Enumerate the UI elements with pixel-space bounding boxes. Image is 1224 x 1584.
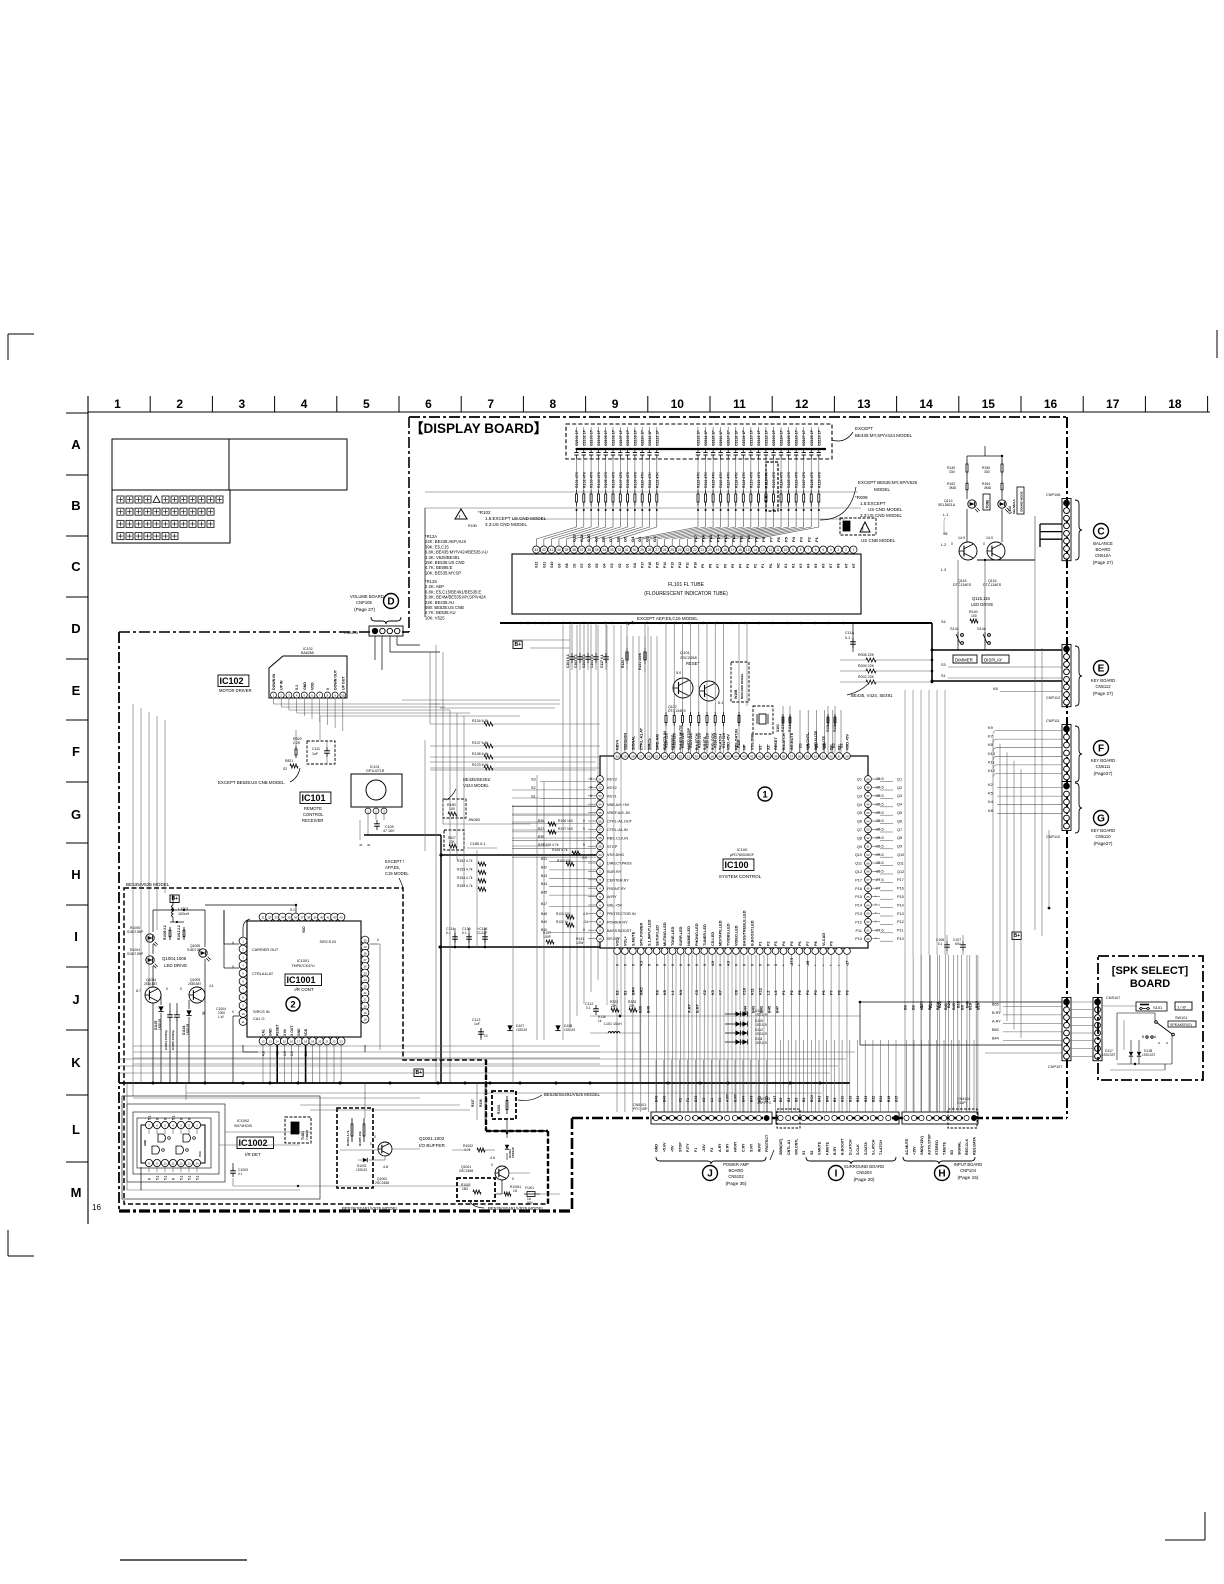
- svg-text:2: 2: [290, 999, 295, 1010]
- svg-text:35: 35: [595, 548, 599, 552]
- svg-text:R111 47K: R111 47K: [648, 472, 652, 488]
- secondary net row B39-B47: [639, 1004, 780, 1013]
- svg-text:19: 19: [311, 1039, 315, 1043]
- svg-text:4.9: 4.9: [583, 912, 588, 916]
- svg-text:R151 100K: R151 100K: [638, 652, 642, 670]
- svg-text:B47: B47: [776, 1006, 780, 1013]
- svg-text:VOL-: VOL-: [616, 936, 620, 946]
- svg-text:L.2: L.2: [941, 543, 946, 547]
- svg-text:BALANCE: BALANCE: [1093, 541, 1113, 546]
- svg-text:SIGNAL: SIGNAL: [631, 735, 635, 750]
- resistor R1012: [177, 925, 185, 940]
- note BE435/SE491 V424 model: [446, 777, 491, 800]
- svg-text:KEY4: KEY4: [616, 739, 620, 750]
- svg-text:27: 27: [639, 754, 643, 758]
- svg-text:23: 23: [671, 754, 675, 758]
- svg-text:INITIALIZE: INITIALIZE: [814, 730, 818, 750]
- svg-text:15: 15: [283, 1039, 287, 1043]
- svg-text:R153 4.7k: R153 4.7k: [457, 867, 473, 871]
- op chip IC100 system control body: [600, 756, 868, 948]
- svg-text:K11: K11: [988, 759, 996, 764]
- net S3 wire: [941, 663, 1062, 667]
- svg-text:L1: L1: [710, 1098, 714, 1102]
- svg-text:B18: B18: [887, 1096, 891, 1102]
- svg-text:R114 47K: R114 47K: [704, 472, 708, 488]
- label BE435,V424,SE491: [847, 684, 893, 698]
- svg-text:0.1: 0.1: [938, 942, 943, 946]
- svg-text:R002 22K: R002 22K: [858, 675, 875, 679]
- svg-text:R125 47K: R125 47K: [787, 471, 791, 488]
- svg-text:0: 0: [232, 965, 234, 969]
- svg-text:B3: B3: [795, 1098, 799, 1102]
- svg-text:57: 57: [599, 828, 602, 832]
- resistor R322: [610, 1000, 619, 1012]
- svg-text:I/R CONT: I/R CONT: [294, 987, 314, 992]
- svg-text:83: 83: [867, 912, 870, 916]
- svg-text:B2: B2: [912, 1005, 916, 1010]
- svg-text:F2: F2: [710, 1148, 714, 1152]
- resistor R009: [858, 664, 876, 673]
- svg-text:NF: NF: [742, 744, 746, 750]
- svg-text:B45: B45: [768, 1006, 772, 1013]
- svg-text:32: 32: [618, 548, 622, 552]
- svg-text:R123 6.8k: R123 6.8k: [472, 763, 489, 767]
- svg-text:CTRL-A1.IN: CTRL-A1.IN: [607, 828, 628, 832]
- svg-text:P8: P8: [814, 941, 818, 946]
- node 1 (circled): [758, 787, 772, 801]
- svg-text:85: 85: [867, 895, 870, 899]
- svg-text:R105 4.7k: R105 4.7k: [552, 848, 568, 852]
- diode D1104: [182, 1010, 192, 1035]
- svg-text:4.6: 4.6: [490, 1156, 495, 1160]
- svg-text:C2113 1P: C2113 1P: [697, 430, 701, 446]
- wire horizontal crossing: [425, 491, 858, 493]
- svg-text:GND: GND: [297, 1028, 301, 1036]
- svg-text:P14: P14: [855, 904, 862, 908]
- crop mark bottom-right: [1165, 1539, 1205, 1541]
- svg-text:CNP105: CNP105: [356, 600, 372, 605]
- wire bundle right column K nets down: [993, 560, 1042, 1038]
- svg-text:18: 18: [363, 1018, 367, 1022]
- svg-text:R112 47K: R112 47K: [655, 472, 659, 488]
- svg-text:42: 42: [333, 915, 337, 919]
- IC100 top pin labels: [616, 725, 850, 750]
- svg-text:36: 36: [587, 548, 591, 552]
- svg-text:C5: C5: [695, 990, 699, 995]
- svg-text:G10: G10: [550, 561, 554, 568]
- svg-text:BE535/SE491/V525 MODEL: BE535/SE491/V525 MODEL: [488, 1206, 544, 1211]
- svg-text:Q5: Q5: [897, 811, 902, 815]
- horizontal connection rows upper-mid: [402, 640, 570, 708]
- svg-text:0.1: 0.1: [462, 931, 467, 935]
- svg-text:SYSTEM CONTROL: SYSTEM CONTROL: [719, 874, 762, 879]
- svg-text:W.RY: W.RY: [757, 1142, 761, 1152]
- IC100 right pins: [865, 776, 880, 942]
- svg-text:B6: B6: [904, 1005, 908, 1010]
- svg-text:MODEL: MODEL: [874, 487, 891, 492]
- svg-text:H: H: [71, 867, 80, 882]
- svg-text:P6: P6: [798, 941, 802, 946]
- brace + ref J power amp board: [656, 1157, 766, 1187]
- svg-text:K2: K2: [791, 564, 795, 568]
- svg-text:FRONT.RY: FRONT.RY: [607, 887, 626, 891]
- svg-text:KEY3: KEY3: [607, 778, 617, 782]
- svg-text:C2123 1P: C2123 1P: [772, 429, 776, 446]
- svg-text:VIR.CNTL: VIR.CNTL: [806, 732, 810, 750]
- svg-text:10: 10: [484, 1034, 488, 1038]
- diode D118: [1137, 1049, 1156, 1057]
- svg-text:SEL5821A: SEL5821A: [1012, 498, 1016, 514]
- CNP104 pin labels: [905, 1134, 977, 1155]
- svg-text:FL101 FL TUBE: FL101 FL TUBE: [668, 582, 705, 588]
- svg-text:R137 6.8k: R137 6.8k: [472, 741, 489, 745]
- FL101 pin row 1-43: [533, 546, 857, 553]
- crystal X101: [753, 706, 780, 734]
- svg-text:DTC134ES: DTC134ES: [668, 709, 686, 713]
- resistors R152-R155: [457, 859, 486, 891]
- svg-text:X1: X1: [758, 745, 762, 750]
- svg-text:C2111 1P: C2111 1P: [648, 430, 652, 446]
- svg-text:2.9: 2.9: [582, 856, 587, 860]
- svg-text:P11: P11: [856, 929, 862, 933]
- svg-text:Q3: Q3: [897, 794, 902, 798]
- svg-text:82: 82: [867, 920, 870, 924]
- svg-text:10: 10: [599, 937, 602, 941]
- svg-text:0: 0: [232, 941, 234, 945]
- svg-text:B49: B49: [655, 1096, 659, 1102]
- svg-text:RESET: RESET: [276, 1024, 280, 1036]
- svg-text:10K: BE535:MY,SP: 10K: BE535:MY,SP: [425, 570, 461, 575]
- svg-text:【DISPLAY BOARD】: 【DISPLAY BOARD】: [410, 421, 547, 436]
- svg-text:CNP110: CNP110: [1046, 835, 1060, 839]
- svg-text:1uF: 1uF: [312, 752, 319, 756]
- svg-text:STOP: STOP: [678, 1142, 682, 1152]
- IC1001 right pins: [361, 936, 369, 1023]
- resistor R180 (dashed option): [443, 799, 466, 818]
- svg-text:CD.LED: CD.LED: [711, 932, 715, 946]
- svg-text:C1304 10000p: C1304 10000p: [164, 1030, 168, 1050]
- svg-text:P14: P14: [663, 562, 667, 568]
- svg-text:1uF: 1uF: [474, 1022, 480, 1026]
- resistor R1004b: [504, 1185, 521, 1196]
- svg-text:P8: P8: [761, 536, 766, 542]
- svg-text:1.5:EXCEPT US CND MODEL: 1.5:EXCEPT US CND MODEL: [485, 516, 547, 521]
- svg-text:CN5111: CN5111: [1096, 764, 1111, 769]
- svg-text:M: M: [71, 1185, 82, 1200]
- svg-text:P9: P9: [701, 564, 705, 568]
- ruler top scale 1-18: [88, 396, 1210, 412]
- svg-text:94: 94: [867, 819, 870, 823]
- svg-text:POWER.RY: POWER.RY: [607, 920, 628, 924]
- capacitor C112: [585, 1002, 599, 1015]
- svg-text:B-LATCH: B-LATCH: [782, 733, 786, 750]
- svg-text:21: 21: [687, 754, 691, 758]
- note US CNB MODEL (dashed): [840, 518, 896, 543]
- labels Q115/Q116 DTC134ES: [953, 579, 1002, 587]
- LED drive wires: [153, 895, 205, 1083]
- component W10B non-rbs module: [731, 662, 749, 702]
- svg-text:R154 4.7k: R154 4.7k: [457, 876, 473, 880]
- svg-text:16: 16: [92, 1203, 101, 1212]
- svg-text:(FLOURESCENT INDICATOR TUBE): (FLOURESCENT INDICATOR TUBE): [644, 591, 728, 597]
- svg-text:23: 23: [340, 1039, 344, 1043]
- capacitor C114: [446, 927, 458, 947]
- svg-text:G10: G10: [586, 534, 591, 542]
- svg-text:SW101: SW101: [1175, 1016, 1187, 1020]
- svg-text:P7: P7: [716, 564, 720, 568]
- svg-text:B44: B44: [744, 1005, 748, 1013]
- svg-text:18Ω: 18Ω: [462, 1187, 469, 1191]
- svg-text:EXCEPT /: EXCEPT /: [385, 859, 405, 864]
- svg-text:GP1U271R: GP1U271R: [366, 769, 385, 773]
- svg-text:0: 0: [742, 964, 746, 966]
- svg-text:G: G: [71, 807, 81, 822]
- svg-text:0: 0: [703, 964, 707, 966]
- svg-text:19: 19: [716, 548, 720, 552]
- bus line under FL101: [500, 622, 932, 624]
- svg-text:B24: B24: [879, 1096, 883, 1102]
- display board border (dash-dot outline): [119, 417, 1067, 1211]
- svg-text:25: 25: [655, 754, 659, 758]
- svg-text:25: 25: [670, 548, 674, 552]
- svg-text:11: 11: [172, 1161, 175, 1165]
- svg-text:0: 0: [750, 964, 754, 966]
- svg-text:29: 29: [623, 754, 627, 758]
- svg-text:G4: G4: [630, 536, 635, 542]
- svg-text:R008 22K: R008 22K: [858, 653, 875, 657]
- svg-text:SETUP.LED: SETUP.LED: [655, 925, 659, 946]
- svg-text:92: 92: [867, 836, 870, 840]
- net row right of IC100 bottom: B-nets: [904, 955, 981, 1112]
- svg-text:R103 47K: R103 47K: [590, 471, 594, 488]
- svg-text:0: 0: [491, 1163, 493, 1167]
- svg-text:STEREO: STEREO: [671, 734, 675, 750]
- svg-text:BE535/SE491/V525 MODEL: BE535/SE491/V525 MODEL: [342, 1206, 398, 1211]
- switch S142: [950, 627, 963, 646]
- svg-text:28: 28: [631, 754, 635, 758]
- svg-text:5.1: 5.1: [187, 1175, 191, 1180]
- svg-text:23: 23: [363, 985, 367, 989]
- svg-text:19: 19: [363, 1011, 367, 1015]
- svg-text:Q8: Q8: [857, 836, 862, 840]
- svg-text:C2110 1P: C2110 1P: [641, 430, 645, 446]
- svg-text:P12: P12: [731, 534, 736, 542]
- resistor R821: [283, 759, 298, 771]
- resistor R124: [621, 640, 628, 670]
- svg-text:(Page 35): (Page 35): [725, 1181, 746, 1187]
- wire bundle verticals left area: [430, 645, 464, 1083]
- svg-text:V424 MODEL: V424 MODEL: [463, 783, 490, 788]
- svg-text:SIGNAL: SIGNAL: [958, 1141, 962, 1155]
- svg-text:KEY2: KEY2: [607, 786, 617, 790]
- svg-text:G9: G9: [557, 563, 561, 568]
- photo LED R1004: [127, 948, 158, 968]
- svg-text:US CND MODEL: US CND MODEL: [868, 507, 903, 512]
- power node B+: [513, 641, 522, 649]
- svg-text:-25.5: -25.5: [875, 828, 884, 832]
- label Q1002 2SC2458: [375, 1177, 389, 1185]
- svg-text:AUTO.STOP: AUTO.STOP: [687, 728, 691, 750]
- transistor Q1004: [136, 978, 168, 1003]
- svg-text:A: A: [71, 437, 81, 452]
- svg-text:L101 10uH: L101 10uH: [604, 1022, 622, 1026]
- svg-text:37: 37: [790, 754, 794, 758]
- svg-text:C101 0.1: C101 0.1: [566, 654, 570, 668]
- svg-text:CN5203: CN5203: [856, 1170, 872, 1175]
- svg-text:1SS119: 1SS119: [755, 1013, 767, 1017]
- junction: [619, 1015, 622, 1018]
- svg-text:S.DATA: S.DATA: [703, 736, 707, 750]
- svg-text:P12: P12: [855, 920, 862, 924]
- svg-text:B+: B+: [515, 642, 522, 648]
- wires R00x to bus: [840, 659, 933, 684]
- svg-text:1.6: 1.6: [283, 1051, 287, 1056]
- svg-text:CNP104: CNP104: [960, 1168, 976, 1173]
- svg-text:B+: B+: [172, 896, 179, 902]
- svg-text:84: 84: [867, 903, 870, 907]
- svg-text:CN510A: CN510A: [1095, 553, 1111, 558]
- photo LED R1005: [127, 926, 158, 946]
- resistor R1002: [463, 1144, 485, 1152]
- svg-text:B45: B45: [765, 1096, 769, 1102]
- svg-text:Q7: Q7: [857, 828, 862, 832]
- svg-text:33: 33: [274, 915, 278, 919]
- svg-text:0: 0: [232, 1010, 234, 1014]
- svg-text:P16: P16: [897, 887, 904, 891]
- svg-text:0: 0: [163, 1118, 167, 1120]
- svg-text:1SS119: 1SS119: [755, 1023, 767, 1027]
- svg-text:E1: E1: [624, 990, 628, 995]
- capacitor C115: [477, 927, 488, 947]
- svg-text:14: 14: [195, 1161, 199, 1165]
- svg-text:CENTER.RY: CENTER.RY: [607, 878, 629, 882]
- svg-text:Q6: Q6: [857, 820, 862, 824]
- svg-text:47 16V: 47 16V: [383, 829, 395, 833]
- svg-text:(Page 20): (Page 20): [853, 1177, 874, 1183]
- svg-text:K: K: [71, 1055, 81, 1070]
- svg-text:20: 20: [363, 1004, 367, 1008]
- svg-text:P17: P17: [693, 534, 698, 542]
- svg-text:P3: P3: [774, 941, 778, 946]
- svg-text:R155 4.7k: R155 4.7k: [457, 884, 473, 888]
- svg-text:5.1: 5.1: [171, 1115, 175, 1120]
- note EXCEPT AFP,E5,C15 MODEL: [385, 859, 409, 888]
- svg-text:C141 0.1: C141 0.1: [590, 654, 594, 668]
- svg-text:40: 40: [320, 915, 324, 919]
- label Q1004,1005 LED DRIVE: [162, 956, 187, 968]
- svg-text:C2112 1P: C2112 1P: [655, 430, 659, 446]
- svg-text:R129 47K: R129 47K: [817, 471, 821, 488]
- svg-text:81: 81: [867, 929, 870, 933]
- wires from left components to power strip: [656, 1060, 767, 1112]
- resistor R157: [543, 931, 554, 944]
- svg-text:C2129 1P: C2129 1P: [817, 429, 821, 446]
- svg-text:R1001: R1001: [497, 1104, 501, 1114]
- svg-text:4.9: 4.9: [727, 961, 731, 966]
- svg-text:Q8: Q8: [897, 836, 902, 840]
- svg-text:24: 24: [363, 978, 367, 982]
- resistor R1004a 4.7k: [346, 1118, 353, 1146]
- capacitor bank C2101-C2129 (dashed box): [566, 424, 832, 459]
- svg-text:C2: C2: [703, 990, 707, 995]
- brace + ref H input board: [903, 1157, 982, 1181]
- svg-text:0: 0: [631, 964, 635, 966]
- svg-text:S1: S1: [941, 674, 946, 678]
- svg-text:BOARD: BOARD: [1130, 978, 1170, 990]
- svg-text:0: 0: [583, 928, 585, 932]
- resistor R115: [737, 702, 741, 753]
- svg-text:C2125 1P: C2125 1P: [787, 429, 791, 446]
- svg-text:5.1: 5.1: [718, 701, 723, 705]
- svg-text:0: 0: [370, 1142, 372, 1146]
- capacitor C113: [472, 1018, 488, 1040]
- svg-text:4.9: 4.9: [711, 961, 715, 966]
- svg-text:P5: P5: [790, 941, 794, 946]
- svg-text:VOLUME BOARD: VOLUME BOARD: [350, 594, 384, 599]
- svg-text:P1: P1: [782, 990, 786, 995]
- svg-text:VDD: VDD: [311, 682, 315, 690]
- net labels P17-P1: [693, 534, 819, 542]
- svg-text:10: 10: [671, 397, 685, 411]
- svg-text:0: 0: [655, 964, 659, 966]
- svg-text:BE535/SE491/V525 MODEL: BE535/SE491/V525 MODEL: [544, 1092, 600, 1097]
- IC100 bottom pin labels: [616, 910, 834, 946]
- svg-text:I: I: [74, 929, 78, 944]
- svg-text:P5: P5: [784, 536, 789, 542]
- svg-text:B49: B49: [825, 1096, 829, 1102]
- diode D1002: [356, 1158, 388, 1172]
- svg-text:VSS.DNG: VSS.DNG: [607, 853, 624, 857]
- svg-text:C2116 1P: C2116 1P: [719, 430, 723, 446]
- resistor R121 R122: [826, 706, 837, 753]
- svg-text:10: 10: [784, 548, 788, 552]
- svg-text:S2: S2: [810, 1151, 814, 1155]
- svg-text:S.DATA: S.DATA: [864, 1142, 868, 1155]
- svg-text:Q1: Q1: [897, 777, 902, 781]
- wires into CNP106: [1040, 524, 1062, 547]
- svg-text:2: 2: [845, 548, 847, 552]
- svg-text:5.1: 5.1: [179, 1175, 183, 1180]
- svg-text:IC100: IC100: [725, 860, 749, 870]
- svg-text:P4: P4: [739, 564, 743, 568]
- svg-text:R117 47K: R117 47K: [727, 472, 731, 488]
- info table top-left: [112, 439, 347, 490]
- svg-text:1.5:EXCEPT: 1.5:EXCEPT: [860, 501, 886, 506]
- svg-text:8: 8: [800, 548, 802, 552]
- svg-text:LED DRIVE: LED DRIVE: [164, 963, 187, 968]
- svg-text:-27: -27: [846, 961, 850, 966]
- svg-text:0: 0: [374, 1135, 376, 1139]
- svg-text:F1: F1: [694, 1148, 698, 1152]
- svg-text:-25.5: -25.5: [875, 794, 884, 798]
- svg-text:BASS/TREBLE.LED: BASS/TREBLE.LED: [742, 910, 746, 946]
- label Q1001 2SC2458: [459, 1165, 473, 1173]
- svg-text:43: 43: [339, 915, 343, 919]
- svg-text:B: B: [1142, 1035, 1144, 1039]
- svg-text:1SS119: 1SS119: [356, 1168, 367, 1172]
- connector CN5101 power amp strip: [633, 1103, 772, 1124]
- wire horizontal crossing: [425, 507, 861, 509]
- svg-text:B40: B40: [663, 1096, 667, 1102]
- svg-text:VDD.+5V: VDD.+5V: [846, 734, 850, 750]
- svg-text:2SC2458: 2SC2458: [459, 1169, 473, 1173]
- capacitor C101: [566, 640, 575, 670]
- svg-text:38: 38: [782, 754, 786, 758]
- transistor Q1002: [370, 1135, 392, 1156]
- svg-text:A.RY: A.RY: [726, 1093, 730, 1102]
- svg-text:P11: P11: [686, 562, 690, 568]
- svg-text:26: 26: [663, 548, 667, 552]
